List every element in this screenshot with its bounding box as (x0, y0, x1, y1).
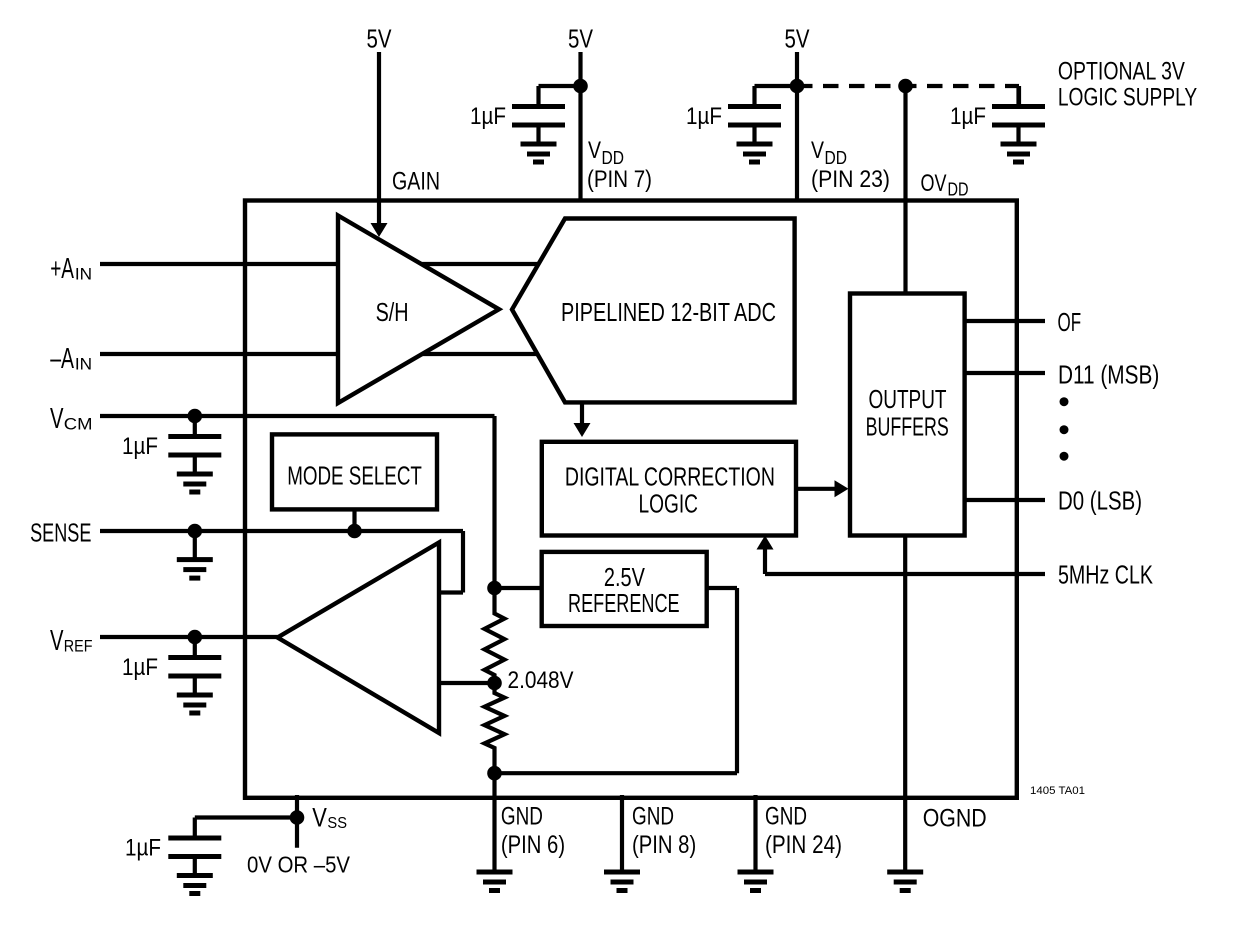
svg-text:(PIN 6): (PIN 6) (501, 831, 565, 859)
resistor R1 divider top (485, 588, 505, 683)
svg-text:MODE SELECT: MODE SELECT (287, 463, 422, 491)
svg-text:OGND: OGND (923, 805, 987, 833)
label VSS (312, 802, 347, 832)
arrowhead CLK into correction logic (757, 536, 774, 550)
svg-text:0V OR –5V: 0V OR –5V (247, 852, 351, 878)
svg-text:(PIN 23): (PIN 23) (811, 166, 890, 193)
svg-text:BUFFERS: BUFFERS (866, 414, 949, 442)
svg-text:1µF: 1µF (950, 103, 986, 130)
svg-text:LOGIC SUPPLY: LOGIC SUPPLY (1058, 83, 1198, 111)
label OF (1058, 309, 1082, 337)
wire SENSE feedback down (461, 531, 465, 593)
wire +AIN input (100, 262, 338, 266)
block DIGITAL CORRECTION LOGIC (542, 442, 796, 536)
wire GND pin 24 (753, 795, 757, 874)
wire ADC to correction logic (580, 402, 584, 423)
label 5V (VDD pin 7) (568, 24, 594, 54)
chip outline (LTC1405) (245, 201, 1017, 798)
svg-text:PIPELINED 12-BIT ADC: PIPELINED 12-BIT ADC (561, 299, 776, 327)
svg-text:REF: REF (64, 638, 93, 656)
svg-text:GND: GND (765, 803, 807, 831)
capacitor C6 1uF (VSS) (168, 818, 297, 897)
svg-text:OV: OV (921, 170, 947, 197)
wire VDD pin 7 supply (578, 52, 582, 201)
wire OF output (965, 319, 1045, 323)
wire VSS pin (295, 795, 299, 848)
svg-text:–A: –A (50, 343, 74, 375)
ground GND pin 6 (477, 870, 513, 894)
label GAIN (392, 168, 440, 196)
arrowhead into output buffers (835, 480, 849, 497)
wire 2.048V tap to buffer (439, 681, 495, 685)
ground at SENSE (177, 531, 213, 581)
node OVDD junction on dashed wire (898, 79, 913, 94)
label C4 1µF (122, 433, 158, 460)
label OVDD (921, 170, 969, 200)
label SENSE (30, 518, 91, 548)
svg-text:1µF: 1µF (122, 654, 158, 681)
wire GND pin 6 (492, 773, 496, 874)
svg-text:(PIN 8): (PIN 8) (632, 831, 696, 859)
wire +AIN S/H to ADC (421, 262, 539, 266)
label GND (PIN 24) (765, 803, 842, 860)
node VREF cap junction (188, 630, 203, 645)
svg-text:SENSE: SENSE (30, 518, 91, 548)
node VCM cap junction (188, 409, 203, 424)
capacitor C2 1uF (VDD pin 23) (728, 86, 797, 165)
svg-text:(PIN 24): (PIN 24) (765, 831, 842, 859)
svg-text:1µF: 1µF (470, 103, 506, 130)
op-amp S/H sample-and-hold (338, 216, 499, 404)
label D11 (MSB) (1058, 362, 1159, 390)
wire correction logic to output buffers (796, 487, 836, 491)
label C3 1µF (950, 103, 986, 130)
svg-text:2.048V: 2.048V (508, 667, 574, 694)
block 2.5V REFERENCE (542, 552, 707, 626)
svg-text:D0 (LSB): D0 (LSB) (1058, 488, 1142, 516)
svg-text:GND: GND (501, 803, 543, 831)
wire SENSE rail (100, 529, 463, 533)
svg-text:V: V (50, 403, 64, 435)
wire -AIN S/H to ADC (422, 352, 538, 356)
ground GND pin 8 (604, 870, 640, 894)
svg-text:5V: 5V (568, 24, 594, 54)
label VDD (pin 7) (587, 137, 652, 193)
label VCM (50, 403, 93, 435)
svg-text:+A: +A (50, 253, 74, 285)
svg-text:V: V (588, 137, 601, 164)
wire reference loop down (735, 588, 739, 773)
label LOGIC (639, 490, 699, 518)
svg-text:1µF: 1µF (686, 103, 722, 130)
wire 5V to GAIN arrow (377, 52, 381, 224)
svg-text:LOGIC: LOGIC (639, 490, 699, 518)
svg-text:V: V (811, 137, 824, 164)
node SENSE ground junction (188, 524, 203, 539)
ground OGND (887, 870, 923, 894)
label 2.048V (508, 667, 574, 694)
resistor R2 divider bottom (485, 683, 505, 773)
wire OVDD down to output buffers (903, 86, 907, 295)
svg-text:OUTPUT: OUTPUT (869, 386, 947, 414)
svg-text:1405 TA01: 1405 TA01 (1030, 785, 1085, 797)
node divider top junction (487, 581, 502, 596)
arrowhead GAIN into S/H (371, 223, 388, 237)
capacitor C1 1uF (VDD pin 7) (512, 86, 581, 165)
wire VDD pin 23 supply (795, 52, 799, 201)
label D0 (LSB) (1058, 488, 1142, 516)
svg-text:1µF: 1µF (125, 835, 161, 862)
label OUTPUT BUFFERS (866, 386, 949, 441)
label 2.5V (604, 562, 645, 592)
label 5V (VDD pin 23) (785, 24, 811, 54)
label GND (PIN 6) (501, 803, 565, 860)
label REFERENCE (568, 588, 680, 618)
label 5MHz CLK (1058, 561, 1153, 589)
op-amp reference buffer (278, 543, 440, 734)
svg-text:DD: DD (602, 148, 625, 168)
svg-text:5V: 5V (367, 24, 393, 54)
svg-text:GAIN: GAIN (392, 168, 440, 196)
label OPTIONAL 3V LOGIC SUPPLY (1058, 58, 1198, 112)
wire VREF rail (100, 635, 278, 639)
label OGND (923, 805, 987, 833)
svg-text:CM: CM (64, 416, 93, 434)
wire -AIN input (100, 352, 338, 356)
svg-text:REFERENCE: REFERENCE (568, 588, 680, 618)
label VREF (50, 625, 93, 657)
svg-text:(PIN 7): (PIN 7) (587, 166, 652, 193)
node VSS junction (290, 810, 305, 825)
svg-text:GND: GND (632, 803, 674, 831)
svg-text:D11 (MSB): D11 (MSB) (1058, 362, 1159, 390)
node 2.048V tap (487, 676, 502, 691)
svg-text:5V: 5V (785, 24, 811, 54)
svg-text:SS: SS (327, 815, 347, 832)
node divider bottom junction (487, 766, 502, 781)
node SENSE mode-select junction (347, 524, 362, 539)
wire reference loop bottom (495, 771, 738, 775)
svg-text:V: V (50, 625, 64, 657)
wire reference out right (707, 586, 737, 590)
label -AIN (50, 343, 92, 375)
svg-text:S/H: S/H (376, 299, 409, 327)
label S/H (376, 299, 409, 327)
svg-text:OPTIONAL 3V: OPTIONAL 3V (1058, 58, 1185, 86)
arrowhead into correction logic (574, 423, 591, 437)
wire dashed optional 3V supply (797, 84, 1019, 88)
svg-text:IN: IN (75, 356, 92, 374)
node VDD7 junction (573, 79, 588, 94)
label VDD (pin 23) (811, 137, 890, 193)
wire divider top to reference (495, 586, 542, 590)
ground GND pin 24 (738, 870, 774, 894)
label C5 1µF (122, 654, 158, 681)
capacitor C4 1uF (VCM) (168, 416, 221, 495)
svg-text:OF: OF (1058, 309, 1082, 337)
label MODE SELECT (287, 463, 422, 491)
wire D11 output (965, 371, 1045, 375)
block MODE SELECT (272, 434, 437, 509)
wire mode select stub (352, 509, 356, 531)
svg-text:DIGITAL CORRECTION: DIGITAL CORRECTION (565, 463, 775, 491)
block pipelined 12-bit ADC (512, 219, 795, 403)
label C6 1µF (125, 835, 161, 862)
wire CLK up to correction logic (763, 550, 767, 575)
label C2 1µF (686, 103, 722, 130)
label C1 1µF (470, 103, 506, 130)
wire SENSE feedback into buffer (439, 590, 463, 594)
svg-text:DD: DD (825, 148, 848, 168)
label DIGITAL CORRECTION (565, 463, 775, 491)
wire GND pin 8 (620, 795, 624, 874)
capacitor C5 1uF (VREF) (168, 637, 221, 716)
svg-text:IN: IN (75, 266, 92, 284)
wire 5MHz CLK input (765, 572, 1045, 576)
svg-text:V: V (312, 802, 327, 832)
label 5V (gain supply) (367, 24, 393, 54)
wire D0 output (965, 498, 1045, 502)
svg-text:1µF: 1µF (122, 433, 158, 460)
svg-text:5MHz CLK: 5MHz CLK (1058, 561, 1153, 589)
capacitor C3 1uF (optional 3V) (992, 86, 1045, 165)
svg-text:DD: DD (948, 180, 969, 200)
label PIPELINED 12-BIT ADC (561, 299, 776, 327)
block OUTPUT BUFFERS (850, 294, 965, 536)
label +AIN (50, 253, 92, 285)
label 0V OR -5V (247, 852, 351, 878)
label GND (PIN 8) (632, 803, 696, 860)
wire OGND (903, 536, 907, 875)
wire VCM rail (100, 414, 495, 418)
label figure number 1405 TA01 (1030, 785, 1085, 797)
node VDD23 junction (790, 79, 805, 94)
ellipsis dots data bus (1060, 397, 1069, 461)
wire VCM down to reference divider (492, 416, 496, 588)
